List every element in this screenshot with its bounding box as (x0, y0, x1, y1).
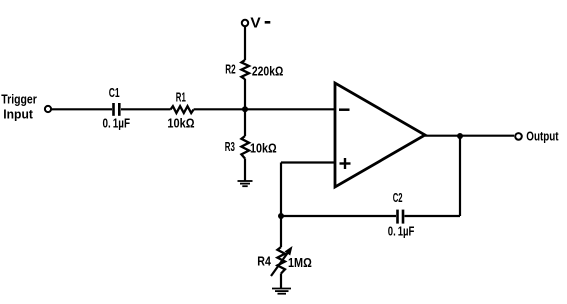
svg-text:R1: R1 (176, 90, 186, 104)
wire C2 to output branch (405, 215, 461, 217)
svg-text:Input: Input (3, 108, 33, 122)
wire output branch down (459, 136, 461, 216)
op-amp non-inverting input plus sign (340, 162, 351, 164)
svg-text:C2: C2 (393, 191, 403, 205)
wire node B to R4 (280, 216, 282, 247)
node C junction dot (output) (457, 133, 463, 139)
resistor R2 (241, 60, 249, 79)
wire input to C1 (52, 108, 113, 110)
output terminal (515, 133, 522, 140)
input terminal (Trigger Input) (45, 106, 51, 112)
resistor R3 (241, 136, 249, 159)
svg-text:10kΩ: 10kΩ (250, 142, 277, 156)
node A junction dot (242, 106, 248, 112)
wire op-amp non-inverting input (281, 161, 335, 163)
ground (below R4) (272, 289, 291, 294)
svg-text:Output: Output (526, 129, 559, 143)
node B junction dot (278, 213, 284, 219)
op-amp inverting input minus sign (339, 108, 350, 111)
ground (below R3) (238, 181, 253, 186)
svg-text:0. 1µF: 0. 1µF (103, 117, 131, 131)
R4 wiper arrow (271, 251, 289, 276)
wire node B to C2 (280, 215, 396, 217)
wire R2 to node A (244, 79, 246, 136)
svg-text:Trigger: Trigger (1, 92, 37, 106)
svg-text:R4: R4 (257, 255, 271, 269)
svg-text:0. 1µF: 0. 1µF (388, 224, 415, 238)
wire op-amp output (425, 135, 514, 137)
svg-text:R3: R3 (225, 140, 235, 154)
V- supply terminal (242, 20, 248, 26)
wire R4 to ground (280, 274, 282, 289)
capacitor C1 (112, 103, 115, 116)
resistor R4 (variable) (277, 247, 285, 274)
svg-text:10kΩ: 10kΩ (167, 117, 194, 131)
wire V- to R2 (244, 26, 246, 60)
capacitor C2 (396, 210, 399, 224)
resistor R1 (171, 106, 194, 113)
wire plus input down to node B (280, 163, 282, 217)
svg-text:220kΩ: 220kΩ (252, 65, 283, 79)
svg-text:C1: C1 (109, 86, 120, 100)
svg-text:V: V (250, 15, 260, 32)
op-amp U1 (335, 83, 425, 187)
svg-text:R2: R2 (225, 63, 235, 77)
wire C1 to R1 (121, 108, 171, 110)
wire R3 to ground (244, 159, 246, 182)
svg-text:1MΩ: 1MΩ (288, 256, 312, 270)
wire R1 to op-amp inverting input (194, 108, 335, 110)
